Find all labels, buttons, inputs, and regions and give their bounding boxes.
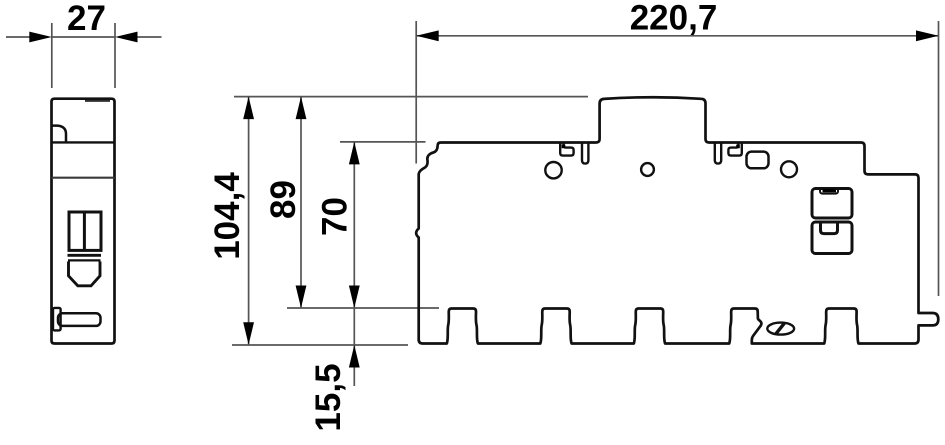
side-view slot left tab [53,308,61,331]
dim 220,7 line [416,35,938,37]
side-view terminal window [69,212,101,250]
dim 220,7 extension line right [938,21,940,296]
svg-text:70: 70 [316,197,355,236]
right pin [715,143,721,163]
top reference extension line (104,4 / 89) [234,96,588,98]
side-view clamp top bar [68,254,102,257]
middle circle hole [641,163,654,176]
side-view horizontal line (top edge level) [52,141,115,143]
fuse window lower notch box [821,224,838,234]
svg-text:15,5: 15,5 [309,363,348,431]
screw head ellipse [767,323,794,335]
dim 27 extension line right [114,23,116,88]
dim 89 arrowhead top [296,97,307,120]
side-view clamp second line [68,259,101,261]
svg-text:220,7: 220,7 [630,0,718,38]
dim 220,7 arrowhead right [916,30,939,41]
side-view bottom slot [58,313,101,326]
dim 70 / 15,5 shared line [353,142,355,386]
screw slot slash [775,323,785,335]
left pin [582,143,588,163]
side-view terminal window divider [83,212,86,250]
dim 27 line and tails [6,36,162,38]
notch-top reference extension line [287,307,439,309]
fuse window upper notch [820,190,838,194]
dim 27 extension line left [51,23,53,88]
left circle hole [545,162,561,178]
fuse window lower [812,222,852,254]
fuse window upper [812,189,852,219]
svg-text:104,4: 104,4 [208,172,247,260]
dim 89 line [300,97,302,308]
side-view top seam line [85,100,110,102]
small rounded rectangle window [747,152,769,169]
side-view horizontal line (step level) [52,177,115,179]
side-view clamp cup body [69,262,101,286]
right hook bracket nub [736,145,740,149]
side-view housing outline [52,99,115,344]
dim 27 arrowhead left [29,32,52,43]
dim 15,5 arrowhead (up, below bottom line) [349,345,360,368]
dim 220,7 arrowhead left [416,30,439,41]
dim 27 arrowhead right [115,32,138,43]
svg-text:27: 27 [67,0,106,38]
dim 89 arrowhead bottom [296,286,307,309]
right circle hole [781,161,797,177]
fuse window upper slot bar [823,189,837,192]
dim 70 arrowhead bottom [349,286,360,309]
dim 70 top extension line [340,141,426,143]
dim 104,4 arrowhead top [243,97,254,120]
left hook bracket nub [562,145,566,149]
left hook bracket under top edge [560,144,573,156]
dim 104,4 arrowhead bottom [243,322,254,345]
svg-text:89: 89 [264,180,303,219]
right hook bracket under top edge [728,144,741,156]
front-view housing outline [416,97,938,343]
dim 70 arrowhead top [349,142,360,165]
dim 220,7 extension line left [415,21,417,164]
side-view upper-left step notch [52,126,67,143]
dim 104,4 line [248,97,250,345]
bottom reference extension line [232,344,408,346]
